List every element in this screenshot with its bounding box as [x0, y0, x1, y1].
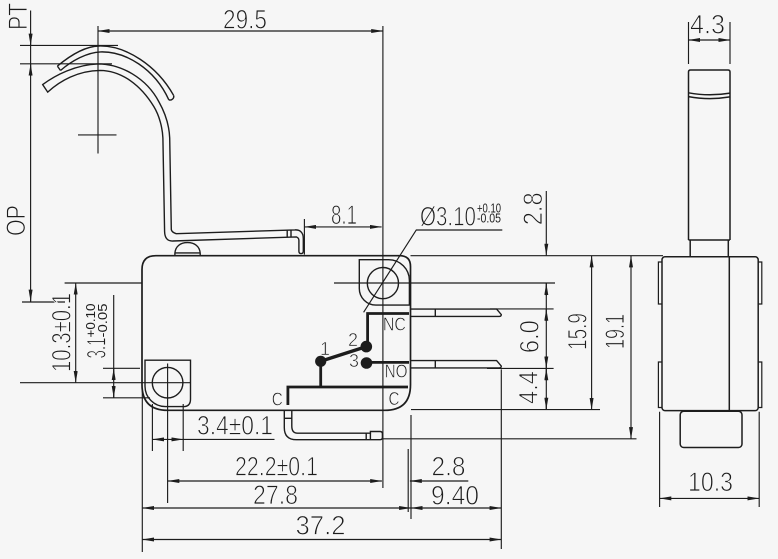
dim 10.3 left	[75, 283, 77, 383]
svg-text:C: C	[389, 389, 400, 409]
roller band end cap	[57, 66, 60, 70]
leader of hole callout	[364, 230, 503, 312]
dim 8.1	[304, 226, 381, 228]
side rails left	[658, 262, 662, 408]
svg-text:4.3: 4.3	[690, 10, 725, 40]
svg-text:3: 3	[349, 351, 359, 371]
bottom hole centerline horizontal	[20, 382, 191, 384]
svg-text:19.1: 19.1	[600, 314, 630, 349]
hole centerline vertical	[382, 26, 384, 488]
hole centerline horizontal	[65, 282, 555, 284]
dim 4.3	[689, 39, 731, 41]
svg-text:3.1: 3.1	[82, 338, 112, 359]
contact dot node 3	[361, 357, 373, 369]
dim 3.4 extensions	[152, 404, 183, 451]
svg-text:10.3: 10.3	[688, 467, 733, 497]
terminals	[284, 309, 501, 440]
lever	[43, 46, 304, 254]
NC path from node 2	[366, 314, 409, 347]
contact dots	[315, 341, 372, 369]
side rails right	[758, 262, 762, 408]
NC terminal tab	[411, 309, 502, 316]
svg-text:NC: NC	[383, 315, 406, 335]
side bottom tab	[680, 411, 742, 447]
svg-text:15.9: 15.9	[563, 313, 593, 350]
switch body	[142, 256, 411, 411]
dim 3.1 line	[113, 295, 115, 398]
dim 22.2	[168, 480, 382, 482]
3.1 extensions	[103, 368, 150, 398]
dim 10.3 side	[660, 497, 760, 499]
roller center tick	[78, 134, 117, 136]
svg-text:37.2: 37.2	[296, 511, 346, 541]
PT reference line 2	[20, 63, 112, 65]
side body front edge line	[728, 257, 730, 411]
dim 4.3 extensions	[689, 22, 731, 64]
svg-text:29.5: 29.5	[223, 5, 267, 35]
roller center vertical	[97, 26, 99, 154]
svg-text:1: 1	[320, 339, 330, 359]
dim 8.1 extension	[303, 219, 305, 255]
body left extension	[141, 391, 143, 552]
svg-text:10.3±0.1: 10.3±0.1	[47, 293, 77, 372]
side body	[662, 257, 758, 411]
dim 29.5	[98, 30, 383, 32]
contact dot node 1	[315, 356, 326, 367]
bottom-left hole boss	[145, 360, 191, 406]
C common bar	[288, 387, 408, 405]
schematic	[288, 314, 409, 406]
dim 10.3 side extensions	[660, 412, 760, 507]
lever arm (bent strip)	[43, 64, 304, 254]
body top extension	[411, 255, 664, 257]
svg-text:2.8: 2.8	[518, 192, 548, 225]
svg-text:22.2±0.1: 22.2±0.1	[235, 452, 318, 482]
roller band inner arc	[61, 52, 169, 100]
body right extension pair	[408, 415, 411, 519]
dim 9.40	[411, 507, 501, 509]
6.0 extensions	[487, 309, 554, 369]
dim 3.4	[152, 438, 183, 440]
OP arrow	[30, 290, 32, 302]
C terminal bent blade (bottom)	[284, 410, 382, 439]
terminal labels	[272, 315, 408, 410]
bottom hole circle	[152, 367, 183, 398]
PT arrow bottom	[30, 64, 32, 76]
svg-text:4.4: 4.4	[513, 371, 543, 404]
side band lower edge (double line)	[689, 93, 731, 99]
dim 15.9	[591, 256, 593, 410]
dim text 3.1 +tol (rotated)	[82, 303, 112, 358]
svg-text:2.8: 2.8	[432, 452, 466, 482]
roller band outer arc	[57, 46, 173, 95]
svg-text:8.1: 8.1	[331, 200, 357, 230]
svg-text:OP: OP	[1, 205, 31, 236]
svg-text:Ø3.10: Ø3.10	[420, 202, 476, 232]
dim 37.2	[142, 539, 501, 541]
svg-text:PT: PT	[3, 3, 33, 30]
bottom hole centerline vertical	[167, 364, 169, 504]
dim 2.8 bottom	[410, 480, 468, 482]
OP reference line	[22, 301, 65, 303]
top hole boss	[359, 260, 409, 305]
terminal tip extension	[500, 369, 502, 549]
PT reference line 1	[20, 44, 118, 46]
NO path from node 3	[367, 361, 410, 364]
svg-text:-0.05: -0.05	[96, 303, 110, 337]
contact dot node 2	[361, 341, 373, 353]
plunger	[175, 243, 200, 256]
chain dim line 6.0/4.4	[545, 283, 547, 409]
blade 1-2	[321, 347, 367, 362]
NO terminal tab	[411, 361, 502, 368]
C blade bottom extension	[383, 438, 637, 440]
body outline	[142, 256, 411, 411]
svg-text:2: 2	[348, 330, 358, 350]
pole 1 stem	[319, 361, 322, 387]
body bottom extension	[411, 409, 600, 411]
svg-text:9.40: 9.40	[431, 481, 479, 511]
svg-text:NO: NO	[385, 362, 408, 382]
top hole circle	[367, 268, 398, 299]
side strip step	[689, 240, 731, 257]
dim 2.8 top line	[545, 191, 547, 244]
lever fold bend marks	[287, 230, 291, 238]
svg-text:3.4±0.1: 3.4±0.1	[197, 411, 273, 441]
svg-text:27.8: 27.8	[253, 480, 298, 510]
dim 19.1	[630, 256, 632, 439]
dim 27.8	[142, 507, 411, 509]
side lever strip	[689, 70, 731, 240]
mounting hole top-right	[145, 260, 409, 407]
svg-text:-0.05: -0.05	[477, 212, 501, 226]
svg-text:C: C	[272, 390, 283, 410]
PT/OP dimension line	[30, 11, 32, 302]
svg-text:6.0: 6.0	[515, 320, 545, 353]
PT arrow top	[30, 34, 32, 46]
roller band tip cap	[169, 95, 174, 100]
